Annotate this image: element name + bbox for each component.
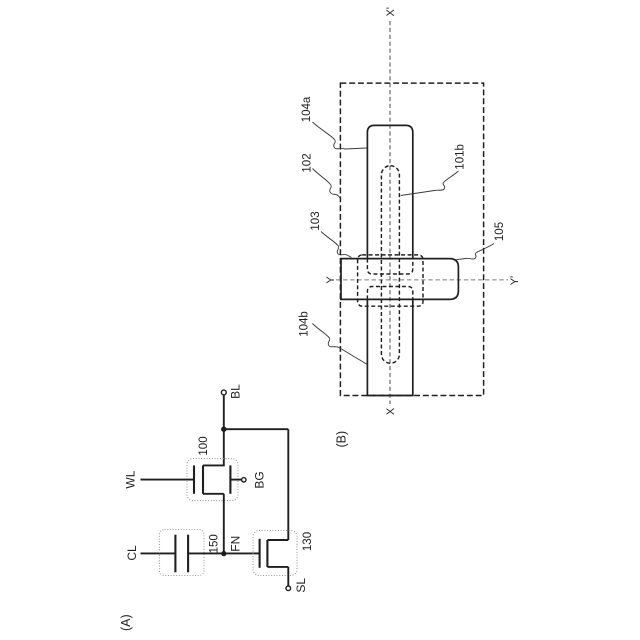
svg-text:BL: BL <box>228 384 242 399</box>
svg-text:Y': Y' <box>509 276 521 285</box>
wire BG <box>230 479 241 481</box>
svg-text:FN: FN <box>229 536 243 552</box>
transistor 130 box <box>253 531 297 576</box>
fin 101b dashed <box>381 166 399 364</box>
svg-text:103: 103 <box>310 211 322 230</box>
conductor 104a <box>367 125 412 258</box>
leader line 101b <box>401 171 459 196</box>
wire node to right branch <box>224 428 288 430</box>
wire transistor 100 source to node FN <box>223 494 225 554</box>
svg-text:BG: BG <box>253 471 267 488</box>
svg-text:130: 130 <box>302 532 314 551</box>
svg-text:150: 150 <box>209 534 221 553</box>
svg-text:X': X' <box>385 7 397 16</box>
terminal BL <box>221 390 226 395</box>
wire transistor 130 source to SL <box>287 567 289 586</box>
wire BL to node <box>223 395 225 429</box>
svg-text:X: X <box>385 407 397 415</box>
center line X-X' <box>389 21 391 404</box>
capacitor 150 <box>175 535 188 573</box>
leader line 103 <box>321 232 352 258</box>
terminal SL <box>286 586 291 591</box>
svg-text:Y: Y <box>325 276 337 284</box>
svg-text:WL: WL <box>124 470 138 488</box>
transistor 100 box <box>187 459 238 501</box>
svg-text:101b: 101b <box>454 144 466 170</box>
conductor 104b <box>367 299 412 395</box>
leader line 104a <box>313 122 368 149</box>
svg-text:CL: CL <box>125 545 139 561</box>
gate electrode 105 <box>341 259 458 300</box>
capacitor 150 box <box>160 530 205 576</box>
region 102 dashed boundary <box>340 83 483 395</box>
svg-text:104a: 104a <box>301 96 313 122</box>
insulating region 103 dashed <box>358 255 423 306</box>
node BL junction <box>221 427 226 432</box>
wire right branch down <box>287 429 289 540</box>
svg-text:102: 102 <box>302 153 314 172</box>
conductor 104b hidden end (dashed) <box>367 287 412 300</box>
wire WL <box>141 479 195 481</box>
labels of part (A) <box>119 384 314 631</box>
svg-text:104b: 104b <box>299 311 311 337</box>
leader line 104b <box>313 324 368 365</box>
svg-text:(A): (A) <box>119 614 133 631</box>
terminal BG <box>242 478 246 482</box>
svg-text:105: 105 <box>494 222 506 241</box>
wire capacitor to node FN <box>188 552 224 554</box>
wire CL <box>141 552 176 554</box>
wire node FN to transistor 130 gate <box>224 552 260 554</box>
svg-text:(B): (B) <box>334 431 348 448</box>
svg-text:100: 100 <box>198 436 210 455</box>
center line Y-Y' <box>336 279 508 281</box>
leader line 105 <box>456 244 495 260</box>
labels of part (B) <box>299 7 521 447</box>
conductor 104a hidden end (dashed) <box>367 259 412 274</box>
leader line 102 <box>313 169 341 199</box>
node FN <box>221 551 226 556</box>
transistor 100 <box>194 465 230 493</box>
transistor 130 <box>260 539 289 568</box>
svg-text:SL: SL <box>294 578 308 593</box>
wire node to transistor 100 drain <box>223 429 225 465</box>
